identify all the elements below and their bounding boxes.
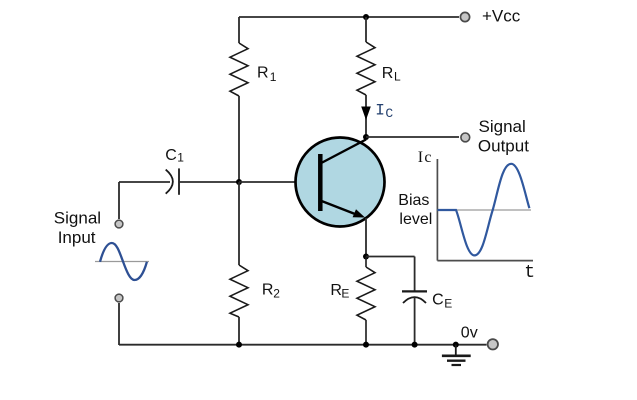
resistor RL: [357, 42, 375, 95]
svg-text:C: C: [385, 106, 393, 121]
transistor Q1 collector line: [320, 140, 366, 164]
svg-text:R: R: [257, 65, 269, 82]
svg-text:L: L: [394, 70, 401, 84]
node RE bottom junction: [363, 342, 369, 348]
svg-text:t: t: [524, 263, 535, 283]
svg-text:C: C: [165, 147, 177, 164]
svg-text:Output: Output: [478, 137, 529, 156]
svg-text:I: I: [375, 102, 385, 120]
graph output sine: [437, 164, 529, 256]
terminal 0v: [488, 339, 498, 349]
wire C1 right lead to base node: [179, 181, 239, 183]
input sine waveform baseline: [95, 261, 149, 263]
capacitor C1 curved plate: [166, 170, 173, 194]
input sine waveform: [100, 243, 147, 280]
wire RL upper lead: [365, 17, 367, 42]
terminal Signal Output: [461, 133, 470, 142]
svg-text:R: R: [382, 65, 394, 82]
svg-text:0v: 0v: [461, 325, 478, 342]
arrow Ic current direction: [361, 107, 371, 121]
graph horizontal axis: [437, 260, 533, 262]
capacitor CE curved plate: [403, 297, 426, 303]
svg-text:R: R: [262, 282, 274, 299]
wire top rail from R1 to +Vcc terminal: [239, 16, 459, 18]
node emitter junction: [363, 254, 369, 260]
wire RL lower lead to collector node: [365, 95, 367, 137]
svg-text:Signal: Signal: [479, 117, 526, 136]
node top junction of RL: [363, 14, 369, 20]
svg-text:Input: Input: [58, 228, 96, 247]
node collector junction: [363, 134, 369, 140]
wire bottom rail: [119, 344, 487, 346]
svg-text:c: c: [424, 149, 431, 166]
svg-text:Signal: Signal: [54, 209, 101, 228]
graph bias level line: [437, 209, 531, 211]
wire CE upper lead: [414, 257, 416, 291]
svg-text:I: I: [418, 149, 423, 166]
svg-text:R: R: [330, 282, 342, 299]
terminal Signal Input bottom: [115, 294, 123, 302]
ground: [455, 345, 457, 355]
wire R1 upper lead: [238, 17, 240, 43]
wire C1 left lead: [119, 181, 170, 183]
terminal Signal Input top: [115, 220, 123, 228]
wire R1 lower lead to base node: [238, 96, 240, 182]
wire CE lower lead: [414, 298, 416, 346]
svg-text:Bias: Bias: [398, 192, 429, 209]
wire input bottom lead: [118, 303, 120, 345]
svg-text:level: level: [399, 211, 432, 228]
svg-text:E: E: [444, 296, 452, 310]
wire base node to transistor: [239, 181, 318, 183]
graph vertical axis: [436, 159, 438, 261]
node R2 bottom junction: [236, 342, 242, 348]
transistor Q1 emitter arrowhead: [353, 209, 365, 217]
node CE bottom junction: [412, 342, 418, 348]
svg-text:1: 1: [177, 151, 184, 165]
resistor R2: [230, 265, 248, 317]
transistor Q1 body: [296, 138, 385, 227]
capacitor C1 straight plate: [178, 168, 180, 194]
wire emitter node to CE branch: [366, 256, 415, 258]
svg-text:2: 2: [273, 286, 280, 300]
capacitor CE straight plate: [402, 290, 427, 292]
svg-text:E: E: [341, 286, 349, 300]
node ground junction: [453, 342, 459, 348]
wire emitter lead down: [365, 218, 367, 257]
transistor Q1 base bar: [318, 154, 323, 211]
svg-text:1: 1: [270, 70, 277, 84]
transistor Q1 emitter line: [320, 201, 355, 215]
terminal +Vcc: [460, 12, 469, 21]
wire input node down from C1 line: [118, 182, 120, 219]
node base junction: [236, 179, 242, 185]
resistor RE: [357, 257, 375, 346]
wire R2 upper lead: [238, 182, 240, 265]
wire R2 lower lead: [238, 317, 240, 344]
svg-text:+Vcc: +Vcc: [482, 7, 521, 26]
wire collector to output terminal: [366, 136, 459, 138]
svg-text:C: C: [432, 292, 444, 309]
resistor R1: [230, 43, 248, 96]
